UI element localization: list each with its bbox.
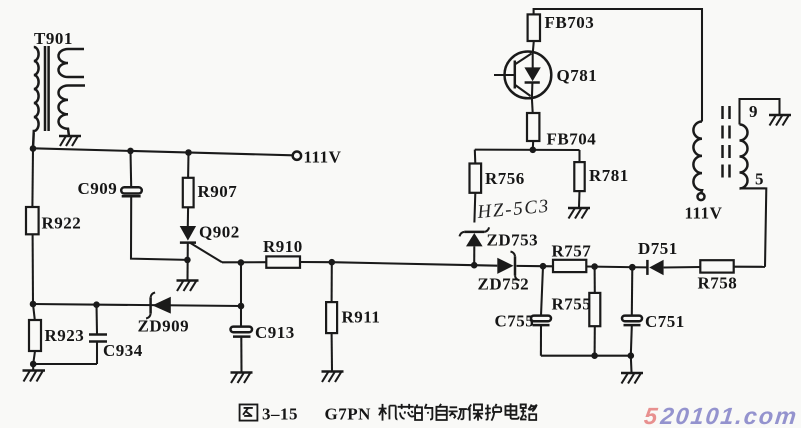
resistor R910	[263, 237, 332, 268]
node: R911 branch	[329, 259, 336, 266]
svg-text:FB704: FB704	[547, 130, 597, 149]
caption hanzi 图	[240, 404, 258, 420]
svg-text:9: 9	[749, 102, 758, 121]
ground (R781)	[568, 208, 590, 219]
ground (bottom rail)	[621, 356, 643, 384]
node: ZD753 / main rail	[471, 262, 478, 269]
svg-text:C755: C755	[495, 312, 535, 331]
svg-text:ZD753: ZD753	[487, 231, 539, 250]
transformer secondary winding (pins 9-5)	[740, 125, 748, 189]
svg-text:111V: 111V	[685, 204, 723, 223]
caption hanzi 自	[436, 404, 446, 420]
resistor R922	[26, 148, 81, 304]
svg-text:G7PN: G7PN	[325, 405, 372, 424]
wire: pin 5 lead	[740, 187, 766, 189]
svg-text:C909: C909	[78, 179, 118, 198]
node: C755 branch	[540, 263, 547, 270]
svg-text:T901: T901	[34, 29, 73, 48]
node: FB704 / R756 / R781	[530, 147, 537, 154]
svg-text:FB703: FB703	[545, 13, 595, 32]
wire: bottom link C934 to R923	[33, 363, 97, 365]
caption: 图 3-15 G7PN 机芯的自动保护电路	[262, 405, 371, 424]
svg-text:3–15: 3–15	[262, 405, 298, 424]
svg-text:20101.com: 20101.com	[658, 403, 799, 428]
svg-text:R756: R756	[485, 169, 525, 188]
svg-text:5: 5	[643, 403, 661, 428]
caption hanzi 机	[379, 404, 398, 421]
node: R755 branch	[591, 263, 598, 270]
node: Q902 cathode	[184, 257, 191, 264]
svg-text:R922: R922	[42, 214, 82, 233]
svg-text:R755: R755	[552, 295, 592, 314]
svg-text:HZ-5C3: HZ-5C3	[476, 196, 550, 223]
svg-text:C913: C913	[255, 323, 295, 342]
transformer T (right, flyback) primary winding	[693, 122, 702, 194]
svg-text:C751: C751	[645, 312, 685, 331]
capacitor C934	[89, 305, 143, 364]
wire: top rail to 111V terminal	[33, 148, 293, 155]
wire: R910 to ZD752	[332, 262, 474, 265]
wire: ZD909 rail	[33, 304, 241, 306]
caption hanzi 护	[485, 404, 501, 421]
svg-text:R758: R758	[698, 274, 738, 293]
transformer core (dashed)	[723, 106, 730, 184]
node: top rail / C909	[127, 148, 134, 155]
wire: top feed to right transformer	[534, 9, 702, 122]
resistor R781	[574, 150, 628, 207]
resistor R758	[698, 260, 766, 292]
caption hanzi 芯	[398, 404, 415, 419]
svg-text:R910: R910	[263, 237, 303, 256]
capacitor C913	[231, 263, 295, 372]
terminal 111V (left)	[293, 152, 301, 160]
transformer T901	[33, 29, 85, 148]
ground (R923)	[23, 364, 46, 382]
caption hanzi 动	[449, 407, 467, 419]
svg-text:R923: R923	[45, 326, 85, 345]
wire: gate node to R910	[222, 261, 266, 263]
capacitor C755	[495, 266, 552, 356]
resistor R755	[552, 267, 601, 356]
svg-text:C934: C934	[103, 341, 143, 360]
wire: bottom rail C755-R755-C751	[541, 355, 631, 357]
svg-text:R781: R781	[589, 166, 629, 185]
wire: R758 to pin 5	[740, 188, 767, 266]
ground (T901 secondary)	[59, 136, 81, 146]
resistor R923	[29, 304, 84, 364]
node: R923 bottom	[30, 361, 37, 368]
caption hanzi 保	[468, 404, 484, 420]
wire: C909 bottom to Q902 cathode	[131, 197, 187, 260]
watermark 520101.com	[643, 403, 799, 428]
resistor R911	[326, 262, 380, 370]
inductor FB704	[527, 98, 596, 149]
transistor Q781	[494, 52, 597, 99]
node: C751 branch	[629, 264, 636, 271]
svg-text:5: 5	[755, 170, 764, 189]
resistor R907	[183, 153, 237, 227]
svg-text:ZD752: ZD752	[478, 275, 530, 294]
wire: R757 to D751	[595, 266, 647, 269]
svg-text:R907: R907	[198, 182, 238, 201]
terminal 111V (right)	[698, 193, 705, 200]
svg-text:ZD909: ZD909	[138, 317, 190, 336]
wire: pin 9 lead	[740, 99, 780, 125]
caption hanzi 的	[415, 404, 432, 420]
ground (R911)	[322, 372, 344, 383]
node: R755 bottom	[591, 352, 598, 359]
caption hanzi 电	[505, 403, 518, 419]
svg-text:Q902: Q902	[199, 223, 240, 242]
svg-text:D751: D751	[638, 239, 678, 258]
capacitor C909	[78, 151, 142, 198]
zener diode ZD752	[474, 251, 543, 293]
zener diode ZD753	[460, 227, 539, 265]
caption hanzi 路	[520, 404, 537, 420]
capacitor C751	[622, 267, 685, 355]
svg-text:R757: R757	[552, 242, 592, 261]
svg-text:111V: 111V	[304, 148, 342, 167]
node: C913 branch	[238, 303, 245, 310]
svg-text:Q781: Q781	[557, 66, 598, 85]
node: top rail / R907	[185, 149, 192, 156]
node: C934 branch	[93, 301, 100, 308]
resistor R756	[470, 150, 525, 223]
node: C751 bottom	[628, 352, 635, 359]
ground (C913)	[231, 373, 253, 384]
zener diode ZD909	[138, 293, 190, 336]
node: R922/R923	[30, 301, 37, 308]
resistor R757	[543, 242, 595, 273]
inductor FB703	[528, 13, 595, 52]
node: R910 left / C913 branch	[238, 259, 245, 266]
ground (pin 9)	[769, 115, 791, 126]
diode D751	[638, 239, 700, 275]
wire: FB704 bottom rail	[475, 149, 580, 151]
svg-text:R911: R911	[342, 308, 381, 327]
node: top rail / T901	[30, 145, 37, 152]
ground (Q902)	[177, 281, 199, 292]
thyristor Q902	[180, 223, 240, 281]
